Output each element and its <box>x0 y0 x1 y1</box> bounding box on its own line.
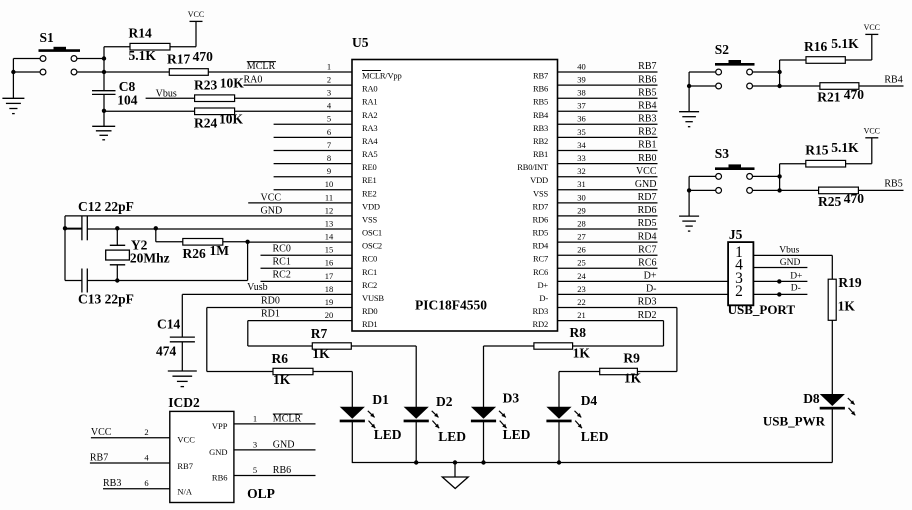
svg-text:27: 27 <box>577 232 586 242</box>
svg-text:RA2: RA2 <box>362 110 377 120</box>
svg-text:5: 5 <box>253 465 257 475</box>
svg-text:104: 104 <box>117 93 138 108</box>
svg-text:RD0: RD0 <box>261 296 280 307</box>
svg-text:VCC: VCC <box>91 427 112 438</box>
svg-text:32: 32 <box>577 166 586 176</box>
svg-text:39: 39 <box>577 75 586 85</box>
svg-text:R19: R19 <box>838 275 861 290</box>
svg-text:GND: GND <box>261 205 283 216</box>
svg-text:R16: R16 <box>804 39 827 54</box>
svg-text:R9: R9 <box>623 350 640 365</box>
svg-text:RB3: RB3 <box>638 114 656 125</box>
svg-text:R23: R23 <box>194 78 217 93</box>
svg-text:RB4: RB4 <box>533 110 549 120</box>
svg-text:RE0: RE0 <box>362 162 377 172</box>
svg-text:31: 31 <box>577 179 586 189</box>
svg-text:D4: D4 <box>581 393 598 408</box>
svg-text:C12 22pF: C12 22pF <box>78 199 134 214</box>
svg-text:N/A: N/A <box>177 487 193 497</box>
svg-text:OSC1: OSC1 <box>362 228 382 238</box>
svg-text:474: 474 <box>156 343 177 358</box>
svg-text:D+: D+ <box>790 272 802 282</box>
svg-text:470: 470 <box>844 191 865 206</box>
svg-text:RC0: RC0 <box>362 254 377 264</box>
svg-text:14: 14 <box>325 232 334 242</box>
svg-text:R25: R25 <box>818 194 841 209</box>
svg-text:470: 470 <box>193 49 214 64</box>
svg-text:5: 5 <box>327 114 331 124</box>
svg-text:38: 38 <box>577 88 586 98</box>
svg-text:LED: LED <box>438 429 466 444</box>
svg-text:RB5: RB5 <box>884 178 902 189</box>
svg-text:VSS: VSS <box>533 188 548 198</box>
svg-text:PIC18F4550: PIC18F4550 <box>415 298 487 313</box>
svg-text:Vusb: Vusb <box>247 282 268 293</box>
svg-text:R24: R24 <box>194 115 217 130</box>
svg-text:RD3: RD3 <box>533 306 548 316</box>
svg-text:15: 15 <box>325 245 334 255</box>
svg-text:RD4: RD4 <box>638 231 657 242</box>
svg-text:20: 20 <box>325 310 334 320</box>
svg-text:24: 24 <box>577 271 586 281</box>
svg-text:5.1K: 5.1K <box>831 140 859 155</box>
svg-text:VCC: VCC <box>261 192 282 203</box>
svg-text:RD4: RD4 <box>533 241 549 251</box>
svg-text:1K: 1K <box>838 298 856 313</box>
svg-text:VSS: VSS <box>362 214 377 224</box>
svg-text:RD2: RD2 <box>533 319 548 329</box>
svg-text:RB7: RB7 <box>533 71 548 81</box>
svg-text:Vbus: Vbus <box>156 89 177 100</box>
svg-text:37: 37 <box>577 101 586 111</box>
svg-text:VDD: VDD <box>530 175 548 185</box>
svg-text:1: 1 <box>253 413 257 423</box>
svg-text:RB0/INT: RB0/INT <box>517 162 549 172</box>
svg-text:R21: R21 <box>817 90 840 105</box>
svg-text:LED: LED <box>581 429 609 444</box>
svg-text:S3: S3 <box>715 146 730 161</box>
svg-text:8: 8 <box>327 153 331 163</box>
svg-text:34: 34 <box>577 140 586 150</box>
svg-text:470: 470 <box>844 87 865 102</box>
svg-text:13: 13 <box>325 218 334 228</box>
svg-text:RD6: RD6 <box>638 205 657 216</box>
svg-text:2: 2 <box>735 283 743 300</box>
svg-text:36: 36 <box>577 114 586 124</box>
svg-text:11: 11 <box>325 192 333 202</box>
svg-text:RB6: RB6 <box>212 473 228 483</box>
svg-text:1K: 1K <box>624 370 642 385</box>
svg-text:23: 23 <box>577 284 586 294</box>
svg-text:10K: 10K <box>219 112 244 127</box>
svg-text:RA0: RA0 <box>362 84 377 94</box>
svg-text:D+: D+ <box>644 271 657 282</box>
svg-text:OLP: OLP <box>247 486 275 501</box>
svg-text:R8: R8 <box>570 325 587 340</box>
svg-text:D8: D8 <box>803 391 820 406</box>
svg-text:RD2: RD2 <box>638 310 657 321</box>
svg-text:RC7: RC7 <box>638 244 656 255</box>
svg-text:VPP: VPP <box>212 421 228 431</box>
svg-text:19: 19 <box>325 297 334 307</box>
svg-text:40: 40 <box>577 61 586 71</box>
svg-text:12: 12 <box>325 205 334 215</box>
svg-text:18: 18 <box>325 284 334 294</box>
svg-text:RB7: RB7 <box>177 461 193 471</box>
svg-text:2: 2 <box>144 427 148 437</box>
svg-text:1K: 1K <box>573 346 591 361</box>
svg-text:RD3: RD3 <box>638 297 657 308</box>
svg-text:GND: GND <box>780 258 801 268</box>
svg-text:RD7: RD7 <box>533 201 548 211</box>
svg-text:VUSB: VUSB <box>362 293 384 303</box>
svg-text:5.1K: 5.1K <box>129 48 157 63</box>
svg-text:RB1: RB1 <box>638 140 656 151</box>
svg-text:D-: D- <box>539 293 548 303</box>
svg-text:D-: D- <box>791 284 801 294</box>
svg-text:RD0: RD0 <box>362 306 377 316</box>
svg-text:5.1K: 5.1K <box>831 36 859 51</box>
svg-text:RC1: RC1 <box>362 267 377 277</box>
svg-text:22: 22 <box>577 297 586 307</box>
svg-text:RC0: RC0 <box>273 243 291 254</box>
svg-text:6: 6 <box>327 127 331 137</box>
svg-text:GND: GND <box>273 439 295 450</box>
svg-text:C13 22pF: C13 22pF <box>78 291 134 306</box>
svg-text:VCC: VCC <box>864 23 880 32</box>
svg-text:RE1: RE1 <box>362 175 377 185</box>
svg-text:RC2: RC2 <box>362 280 377 290</box>
svg-text:1K: 1K <box>312 346 330 361</box>
svg-text:RD5: RD5 <box>638 218 657 229</box>
svg-text:RB7: RB7 <box>638 61 656 72</box>
svg-text:R6: R6 <box>272 351 289 366</box>
svg-text:RB3: RB3 <box>103 478 121 489</box>
svg-text:USB_PORT: USB_PORT <box>728 302 796 317</box>
svg-text:RD1: RD1 <box>362 319 377 329</box>
svg-text:1: 1 <box>327 61 331 71</box>
svg-text:3: 3 <box>253 439 257 449</box>
svg-text:RB6: RB6 <box>273 465 291 476</box>
svg-text:RC6: RC6 <box>638 258 656 269</box>
svg-text:Vbus: Vbus <box>779 246 799 256</box>
svg-text:28: 28 <box>577 218 586 228</box>
svg-text:GND: GND <box>635 179 657 190</box>
svg-text:D2: D2 <box>436 394 453 409</box>
svg-text:9: 9 <box>327 166 331 176</box>
svg-text:25: 25 <box>577 258 586 268</box>
svg-text:RB0: RB0 <box>638 153 656 164</box>
svg-text:RB6: RB6 <box>638 74 656 85</box>
svg-text:1K: 1K <box>273 372 291 387</box>
svg-text:OSC2: OSC2 <box>362 241 382 251</box>
svg-text:7: 7 <box>327 140 331 150</box>
svg-text:33: 33 <box>577 153 586 163</box>
svg-text:2: 2 <box>327 75 331 85</box>
svg-text:VDD: VDD <box>362 201 380 211</box>
svg-text:D1: D1 <box>372 392 389 407</box>
svg-text:29: 29 <box>577 205 586 215</box>
svg-text:VCC: VCC <box>636 166 657 177</box>
svg-text:GND: GND <box>209 447 227 457</box>
svg-text:RB2: RB2 <box>638 127 656 138</box>
svg-text:RE2: RE2 <box>362 188 377 198</box>
svg-text:MCLR: MCLR <box>273 413 302 424</box>
svg-text:J5: J5 <box>729 227 743 242</box>
svg-text:RD7: RD7 <box>638 192 657 203</box>
svg-text:LED: LED <box>374 427 402 442</box>
svg-text:VCC: VCC <box>864 126 880 135</box>
svg-text:RB1: RB1 <box>533 149 548 159</box>
svg-text:MCLR: MCLR <box>247 61 276 72</box>
svg-text:3: 3 <box>327 88 331 98</box>
svg-text:RA1: RA1 <box>362 97 377 107</box>
svg-text:R15: R15 <box>805 142 828 157</box>
svg-text:C14: C14 <box>157 317 180 332</box>
svg-text:35: 35 <box>577 127 586 137</box>
svg-text:VCC: VCC <box>188 10 204 19</box>
svg-text:RB4: RB4 <box>884 75 902 86</box>
svg-text:6: 6 <box>144 478 148 488</box>
svg-text:RB4: RB4 <box>638 101 656 112</box>
svg-text:20Mhz: 20Mhz <box>130 251 170 266</box>
svg-text:U5: U5 <box>352 35 369 50</box>
svg-text:RD1: RD1 <box>261 309 280 320</box>
svg-text:RB5: RB5 <box>533 97 548 107</box>
svg-text:RA4: RA4 <box>362 136 378 146</box>
svg-text:RC1: RC1 <box>273 256 291 267</box>
svg-text:D3: D3 <box>503 391 520 406</box>
svg-text:10K: 10K <box>220 75 245 90</box>
svg-text:RB2: RB2 <box>533 136 548 146</box>
svg-text:R17: R17 <box>167 51 190 66</box>
svg-text:10: 10 <box>325 179 334 189</box>
svg-text:21: 21 <box>577 310 586 320</box>
svg-text:RB6: RB6 <box>533 84 548 94</box>
svg-text:1M: 1M <box>210 243 230 258</box>
svg-text:17: 17 <box>325 271 334 281</box>
svg-text:D+: D+ <box>537 280 548 290</box>
svg-text:16: 16 <box>325 258 334 268</box>
svg-text:ICD2: ICD2 <box>168 395 200 410</box>
svg-text:RC6: RC6 <box>533 267 548 277</box>
svg-text:RB7: RB7 <box>90 452 108 463</box>
svg-text:RB3: RB3 <box>533 123 548 133</box>
svg-text:RD6: RD6 <box>533 214 548 224</box>
svg-text:VCC: VCC <box>177 435 195 445</box>
svg-text:26: 26 <box>577 245 586 255</box>
svg-text:USB_PWR: USB_PWR <box>763 413 826 428</box>
svg-text:RA0: RA0 <box>244 74 263 85</box>
svg-text:30: 30 <box>577 192 586 202</box>
svg-text:MCLR/Vpp: MCLR/Vpp <box>362 71 402 81</box>
svg-text:LED: LED <box>503 427 531 442</box>
svg-text:S2: S2 <box>715 42 730 57</box>
svg-text:R26: R26 <box>183 246 206 261</box>
svg-text:R14: R14 <box>129 26 152 41</box>
svg-text:S1: S1 <box>40 30 55 45</box>
svg-text:RA3: RA3 <box>362 123 377 133</box>
svg-text:RB5: RB5 <box>638 87 656 98</box>
svg-text:RC2: RC2 <box>273 269 291 280</box>
svg-text:RA5: RA5 <box>362 149 377 159</box>
svg-text:D-: D- <box>646 284 657 295</box>
svg-text:RD5: RD5 <box>533 228 548 238</box>
svg-text:R7: R7 <box>311 326 328 341</box>
svg-text:RC7: RC7 <box>533 254 548 264</box>
